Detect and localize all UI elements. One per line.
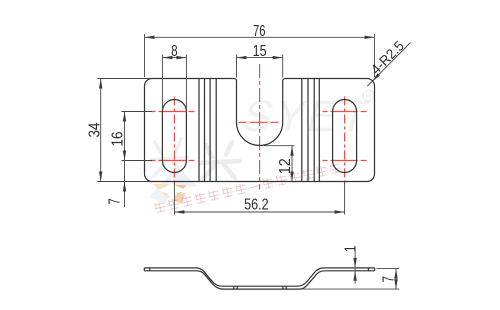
svg-text:SYET: SYET xyxy=(238,93,377,141)
svg-text:76: 76 xyxy=(253,23,266,40)
svg-text:15: 15 xyxy=(253,43,267,60)
svg-text:7: 7 xyxy=(107,198,124,205)
svg-text:16: 16 xyxy=(110,131,127,146)
svg-text:34: 34 xyxy=(86,122,103,137)
svg-text:8: 8 xyxy=(171,43,178,60)
svg-text:12: 12 xyxy=(277,158,294,174)
svg-text:7: 7 xyxy=(381,276,398,283)
svg-text:R: R xyxy=(366,92,372,101)
svg-text:56.2: 56.2 xyxy=(244,197,269,214)
svg-text:1: 1 xyxy=(342,245,359,252)
